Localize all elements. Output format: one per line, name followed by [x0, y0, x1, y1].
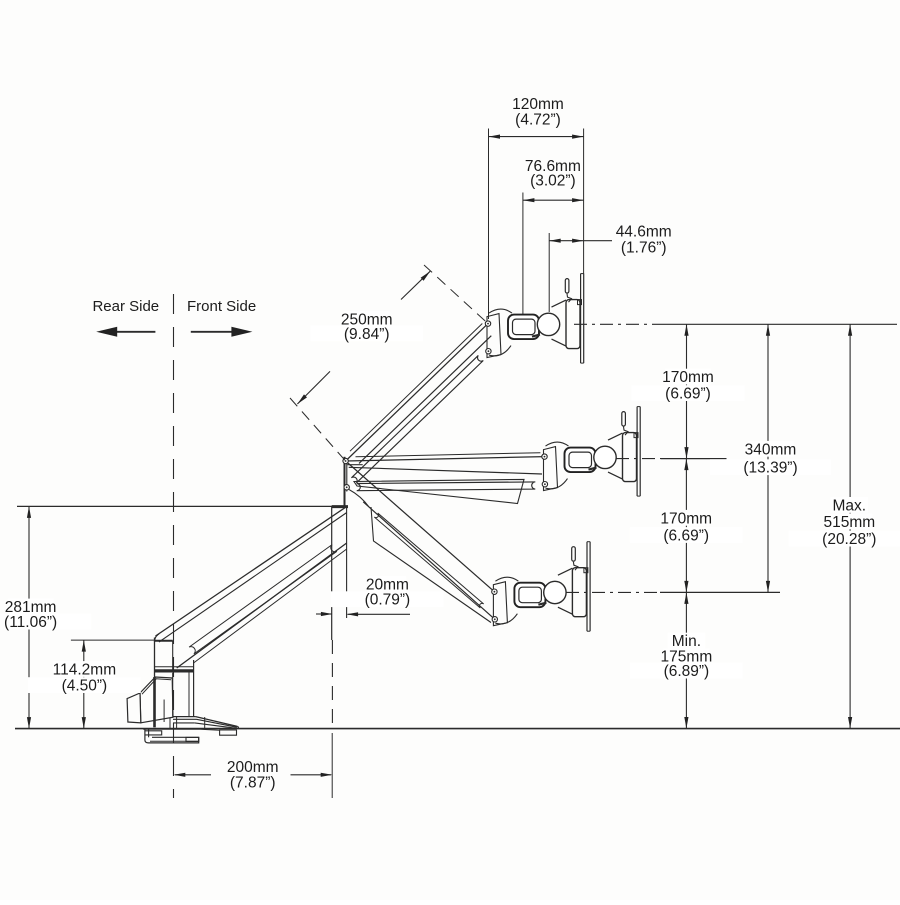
dimension 76.6mm (3.02")	[522, 193, 524, 315]
svg-text:Front Side: Front Side	[187, 298, 256, 315]
dimension Min. 175mm (6.89")	[685, 592, 687, 728]
elbow pivot upper	[343, 458, 348, 463]
base front corner edges	[169, 717, 171, 730]
monitor mount head (top position)	[487, 314, 501, 358]
middle arm under panel	[354, 479, 524, 503]
clamp screw boss	[186, 737, 199, 741]
base riser post	[154, 638, 156, 678]
monitor mount head (middle position)	[544, 447, 558, 491]
clamp top pad	[145, 731, 162, 735]
svg-text:(6.69”): (6.69”)	[665, 386, 711, 403]
svg-text:(11.06”): (11.06”)	[4, 614, 57, 631]
dimension 170mm upper (6.69")	[686, 324, 688, 458]
dimension 120mm (4.72")	[488, 129, 490, 320]
dimension 114.2mm (4.50")	[71, 639, 155, 641]
elbow joint block	[344, 457, 346, 507]
dimension Max. 515mm (20.28")	[849, 324, 851, 728]
base foot plate	[173, 716, 196, 718]
desk surface line	[15, 728, 900, 730]
upper arm link (middle position)	[346, 457, 545, 461]
vertical dashed centerline through base clamp axis	[173, 294, 175, 798]
svg-text:(20.28”): (20.28”)	[822, 531, 876, 548]
post top joint line	[155, 640, 173, 642]
svg-text:(4.50”): (4.50”)	[62, 678, 108, 695]
post clamp ring (dark band)	[155, 669, 194, 672]
svg-text:114.2mm: 114.2mm	[53, 661, 116, 678]
svg-text:(0.79”): (0.79”)	[365, 592, 411, 609]
svg-text:Min.: Min.	[672, 633, 701, 650]
dash-dot centerline through bottom head position	[566, 591, 660, 593]
svg-text:(7.87”): (7.87”)	[230, 775, 276, 792]
svg-text:120mm: 120mm	[512, 96, 564, 113]
dimension 44.6mm (1.76")	[548, 233, 550, 312]
bottom arm side face	[371, 507, 491, 623]
vertical dashed centerline below elbow joint	[331, 640, 333, 728]
bottom arm top-face slot	[374, 513, 483, 608]
lower arm side panel slot	[189, 545, 337, 654]
upper reference line at arm pivot height	[17, 505, 346, 507]
svg-text:170mm: 170mm	[660, 510, 712, 527]
svg-text:(9.84”): (9.84”)	[344, 326, 390, 343]
dimension 20mm (0.79")	[316, 613, 332, 615]
cable cover wedge	[140, 677, 173, 723]
dash-dot centerline through middle head position	[616, 458, 661, 460]
svg-text:(6.89”): (6.89”)	[664, 663, 710, 680]
svg-text:(13.39”): (13.39”)	[743, 460, 797, 477]
svg-text:340mm: 340mm	[745, 441, 797, 458]
svg-text:(1.76”): (1.76”)	[621, 240, 667, 257]
svg-text:Rear Side: Rear Side	[92, 298, 159, 315]
svg-text:Max.: Max.	[833, 497, 867, 514]
dimension 281mm (11.06")	[28, 506, 30, 728]
svg-text:200mm: 200mm	[227, 759, 279, 776]
svg-text:44.6mm: 44.6mm	[616, 224, 672, 241]
upper arm link (top position)	[346, 324, 488, 461]
svg-text:(6.69”): (6.69”)	[663, 527, 709, 544]
elbow pivot lower	[344, 485, 349, 490]
svg-text:170mm: 170mm	[662, 369, 714, 386]
dimension 340mm (13.39")	[767, 324, 769, 592]
lower arm beam from base to elbow	[156, 507, 347, 636]
dimension 250mm (9.84") diagonal	[290, 398, 346, 461]
dimension 200mm (7.87")	[331, 733, 333, 798]
dimension 170mm lower (6.69")	[685, 459, 687, 593]
monitor mount head (bottom position)	[493, 582, 507, 626]
desk clamp below desk	[145, 729, 199, 743]
svg-text:515mm: 515mm	[823, 514, 875, 531]
dash-dot centerline through top head position	[574, 323, 660, 325]
svg-text:(3.02”): (3.02”)	[530, 173, 576, 190]
svg-text:(4.72”): (4.72”)	[515, 112, 561, 129]
front foot pad	[220, 730, 237, 735]
upper arm link (bottom position)	[346, 461, 495, 592]
